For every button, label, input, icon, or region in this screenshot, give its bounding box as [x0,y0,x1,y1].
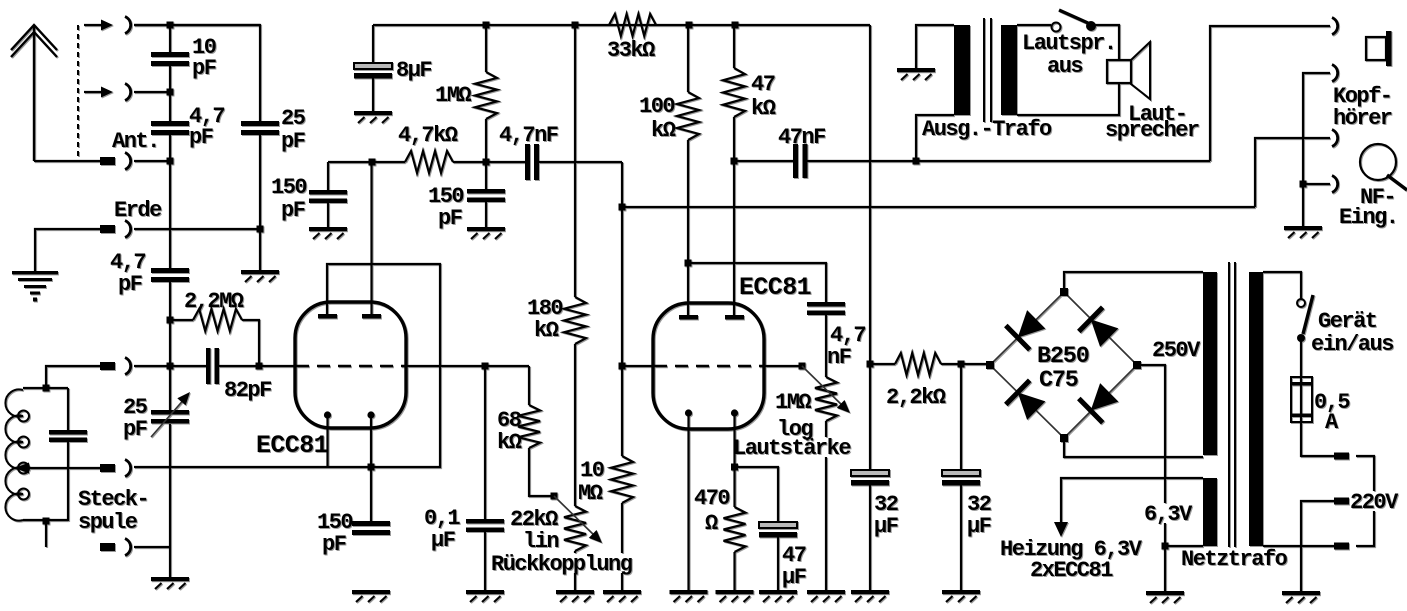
capacitor coil parallel [49,388,87,521]
ground 10M [603,590,641,602]
wire primary bottom [1263,545,1334,547]
switch Geraet ein/aus [1297,295,1313,342]
tube2 cathode A pin [685,409,692,590]
junction row2 [167,89,174,96]
potentiometer 1M log [815,315,837,590]
tube1 cathode B pin [367,411,374,521]
junction rail 100k [686,22,693,29]
ground 8uF [354,111,392,123]
ground 150pF anode [309,227,347,239]
svg-text:MΩ: MΩ [578,481,603,506]
diode D1 upper-left [1006,310,1046,350]
wire NF top [1255,138,1330,207]
plug Ant [100,157,115,165]
ground ausgtrafo [897,68,935,80]
tube1 cathode A pin [324,411,331,467]
junction gridB 0,1uF [482,363,489,370]
junction top rail x170 [167,22,174,29]
label 1M log [775,390,812,442]
wire rail B+ [373,24,870,26]
label 6,3V winding [1144,502,1193,527]
junction 2,2M left [167,317,174,324]
capacitor 10pF [151,52,189,66]
ground tube2 cathode A [670,590,708,602]
label 2,2M [184,289,244,314]
junction anode node [369,159,376,166]
label B250 C75 [1037,343,1089,394]
svg-text:Lautspr.: Lautspr. [1022,31,1116,56]
ausgtrafo secondary winding [1001,25,1017,115]
wire switch to speaker [1094,25,1119,60]
label 4,7pF lower [110,250,145,297]
wire main column x170 [169,25,171,577]
bridge vertex right [1133,361,1141,369]
wire tube1 gridB [406,365,529,367]
svg-text:6,3V: 6,3V [1144,502,1193,527]
ground 22k pot [556,590,594,602]
svg-text:2,2kΩ: 2,2kΩ [886,385,946,410]
svg-text:ECC81: ECC81 [256,431,328,460]
label Lautsprecher [1105,102,1199,143]
junction tube2 grid [619,363,626,370]
svg-text:8µF: 8µF [396,58,431,83]
ground main column [151,577,189,589]
ausgtrafo primary winding [954,25,970,115]
wire primary bottom [916,115,954,161]
wire bridge right to ground [1137,365,1165,591]
plug mains middle [1334,498,1349,505]
wire row2 [134,91,170,93]
resistor 2,2k [895,353,941,375]
resistor 47k [723,25,745,161]
svg-text:pF: pF [189,125,213,150]
svg-text:pF: pF [192,56,216,81]
capacitor 47nF [793,144,808,178]
wire antenna to Ant plug [34,160,100,162]
tube1 anode B bar+pin [362,162,381,319]
junction output trafo [913,158,920,165]
jack coil bottom [125,539,131,556]
bridge sides [990,292,1137,438]
wire 4,7nF to tube2 grid column [539,161,622,163]
label Erde [114,198,162,223]
netztrafo core [1229,262,1235,547]
tube2 grid dashed [654,365,764,367]
svg-text:1MΩ: 1MΩ [775,390,811,415]
plug coil bottom [100,543,115,551]
label 47k [751,72,776,121]
capacitor 8uF [354,25,392,111]
capacitor 150pF cathode [352,521,390,535]
label 250V [1152,338,1201,363]
junction heater return [1162,543,1169,550]
svg-text:Erde: Erde [114,198,162,223]
ground 32uF first [851,590,889,602]
tube2 anode A bar [679,315,698,320]
svg-text:100: 100 [639,94,674,119]
svg-text:Lautstärke: Lautstärke [733,436,851,461]
label 68k [497,408,522,455]
label 22k lin Rueckkopplung [510,507,558,554]
label 32uF second [967,492,991,539]
label ECC81 tube1 [256,431,328,460]
ground rectifier minus [1146,591,1184,603]
wire NF bottom jack [1303,183,1330,185]
ground 25pF column [241,270,279,282]
svg-text:pF: pF [281,198,305,223]
wire anodeA to 4,7nF2 [688,263,826,315]
svg-text:µF: µF [431,528,455,553]
tube2 cathode B pin [731,409,738,507]
svg-text:µF: µF [782,565,806,590]
svg-text:pF: pF [322,532,346,557]
wire 47nF to trafo [807,160,1210,162]
svg-text:Gerät: Gerät [1318,309,1377,334]
heater arrow [1054,522,1068,537]
ground 0,1uF [466,590,504,602]
svg-text:ECC81: ECC81 [739,273,811,302]
dashed antenna aux line [77,25,79,161]
svg-text:Netztrafo: Netztrafo [1181,547,1288,572]
wire cathodeB to 47uF [735,467,779,522]
wire heater supply [1061,478,1203,523]
triode U1 ECC81 envelope [295,302,406,428]
resistor 10M [611,456,633,590]
svg-text:pF: pF [118,272,142,297]
wire NF bus [622,206,1255,208]
label 8uF [396,58,431,83]
svg-text:sprecher: sprecher [1105,118,1199,143]
jack headphone bottom [1332,65,1338,82]
svg-text:33kΩ: 33kΩ [607,38,655,63]
plug mains top left [1334,453,1349,460]
jack Ant [125,153,131,170]
wire tube2 grid column [621,162,623,456]
headphone icon [1366,31,1392,66]
wiper arrow 22k pot [554,496,602,543]
jack Erde [125,221,131,238]
label 100k [639,94,676,143]
label 4,7pF upper [189,104,224,150]
netztrafo primary winding [1249,272,1263,546]
svg-text:kΩ: kΩ [651,118,676,143]
ausgtrafo core [984,18,991,122]
resistor 180k [564,25,586,506]
label 10M [578,458,604,506]
svg-text:Steck-: Steck- [78,487,148,512]
capacitor 4,7nF2 [807,302,845,315]
arrow connector row2 [84,87,113,98]
loudspeaker [1107,42,1150,99]
wire heater return [1165,545,1203,547]
capacitor 82pF [206,348,219,384]
plug coil tap [100,464,115,472]
junction NF ground [1300,181,1307,188]
capacitor 32uF second [942,364,980,590]
svg-text:C75: C75 [1039,367,1078,394]
wire 2,2M right [242,320,259,366]
triode U2 ECC81 envelope [653,303,764,429]
wire mains middle tap [1301,501,1334,591]
resistor 1M [475,25,497,162]
jack grid row [125,358,131,375]
resistor 33k [609,14,656,36]
label 150pF anode [271,175,306,223]
svg-text:82pF: 82pF [224,378,271,403]
svg-text:Rückkopplung: Rückkopplung [491,552,632,577]
resistor 2,2M [193,309,242,331]
junction wire2 [619,204,626,211]
junction cathode row [368,464,375,471]
wiper arrow 1M pot [802,366,850,413]
wire speaker return [1017,83,1119,115]
svg-text:4,7nF: 4,7nF [499,123,558,148]
svg-text:pF: pF [438,206,462,231]
junction tube2 gridB wiper [799,363,806,370]
wire mains right bracket [1356,456,1374,546]
label Geraet ein/aus [1311,309,1393,357]
label 4,7k [398,123,458,148]
label 4,7nF2 [827,323,865,370]
fuse 0,5A [1291,377,1312,422]
capacitor 4,7pF lower [151,268,189,282]
junction tube2 anodeA [685,260,692,267]
junction coil top [43,385,50,392]
potentiometer 22k lin [564,506,586,590]
svg-text:µF: µF [967,514,991,539]
tube1 anode A bar [318,314,337,319]
tube1 grid dashed [296,365,406,367]
label ECC81 tube2 [739,273,811,302]
svg-text:kΩ: kΩ [497,430,522,455]
svg-text:47: 47 [751,72,775,97]
wire coil bottom [23,520,68,547]
junction 68k wiper [551,493,558,500]
svg-text:pF: pF [281,129,305,154]
svg-text:kΩ: kΩ [751,96,776,121]
label Ant. [112,129,159,154]
svg-text:B250: B250 [1037,343,1089,370]
svg-text:nF: nF [827,345,851,370]
coil tap arrow [15,463,100,474]
svg-text:220V: 220V [1350,490,1399,515]
label 32uF first [874,492,898,539]
label trimmer 25pF [123,395,148,442]
wire anodeB pin [733,161,735,315]
plug Erde [100,225,115,233]
wire 2,2k to bridge [941,363,990,365]
wire B+ drop [869,25,871,364]
tube2 anode B bar [725,315,744,320]
label 470 [694,486,729,536]
resistor 4,7k [405,151,453,173]
diode D3 lower-left [1006,380,1046,420]
svg-text:2xECC81: 2xECC81 [1030,558,1113,583]
jack NF bottom [1332,176,1338,193]
antenna symbol [11,25,57,161]
svg-text:hörer: hörer [1333,106,1392,131]
ground 47uF [759,590,797,602]
ground 1M log pot [807,590,845,602]
wire 4,7k to 4,7nF [453,161,525,163]
svg-text:2,2MΩ: 2,2MΩ [184,289,244,314]
capacitor 150pF anode [309,162,347,227]
svg-text:Ω: Ω [705,511,718,536]
jack coil tap [125,460,131,477]
svg-text:Ausg.-Trafo: Ausg.-Trafo [922,117,1052,142]
label Heizung [1000,537,1143,583]
junction Erde 25pF column [257,226,264,233]
label 82pF [224,378,271,403]
label Netztrafo [1181,547,1288,572]
label 33k [607,38,655,63]
svg-text:470: 470 [694,486,729,511]
capacitor 4,7nF coupling [525,144,539,180]
wire B+ to 2,2k [870,363,895,365]
ground 150pF second [467,227,505,239]
label Steckspule [78,487,148,535]
junction grid row x170 [167,363,174,370]
wire 25pF column [134,25,260,270]
svg-text:µF: µF [874,514,898,539]
svg-text:kΩ: kΩ [534,318,559,343]
wire secondary top [1017,24,1051,26]
capacitor 25pF [241,121,279,135]
wire bridge bottom to trafo [1064,438,1203,457]
junction Ant row [167,158,174,165]
diode D2 upper-right [1079,307,1119,347]
label 150pF cathode [317,510,352,557]
wire NF ground [1302,184,1304,226]
wire 2,2M left [170,319,193,321]
svg-text:1MΩ: 1MΩ [435,83,471,108]
label 220V [1350,490,1399,515]
resistor 470 [724,507,746,590]
svg-text:25: 25 [281,106,306,131]
label 0,1uF [424,506,460,553]
capacitor 0,1uF [466,366,504,590]
bridge vertex top [1060,288,1068,296]
junction coil bottom [43,518,50,525]
resistor 100k [677,25,699,263]
wire tube2 gridB [764,365,802,367]
label NF-Eing. [1339,185,1398,230]
switch Lautspr aus [1052,10,1097,32]
label 1M [435,83,471,108]
junction rail 180k [572,22,579,29]
trimmer arrow [151,392,190,437]
label 25pF [281,106,306,154]
ground 32uF second [942,590,980,602]
capacitor 32uF first [851,364,889,590]
ground 470 [716,590,754,602]
wire trafo to headphone jack [1210,26,1330,161]
svg-text:Eing.: Eing. [1339,205,1398,230]
wire grid row left [134,365,207,367]
svg-text:47nF: 47nF [778,125,825,150]
ground mains [1282,591,1320,603]
wire 82pF to tube1 [219,365,296,367]
wire Ant row [134,160,170,162]
plug mains bottom [1334,543,1349,550]
label 10pF [192,35,216,81]
netztrafo 6,3V winding [1203,478,1217,546]
label Lautstaerke [733,436,851,461]
NF input icon [1360,144,1407,190]
jack NF top [1332,130,1338,147]
junction 2,2M to grid wire [256,363,263,370]
capacitor 4,7pF upper [151,121,189,135]
label 2,2k [886,385,946,410]
bridge vertex bottom [1060,434,1068,442]
svg-text:ein/aus: ein/aus [1311,332,1393,357]
label 47uF [782,543,806,590]
ground NF [1284,226,1322,238]
wire fuse to plug [1301,422,1334,456]
label 180k [527,296,562,343]
junction rail 47k [732,22,739,29]
wire cathode row tube1 [134,264,440,467]
wire primary top grounded [916,25,954,68]
junction 1M column [483,159,490,166]
svg-text:spule: spule [78,510,138,535]
wire Erde left + down [35,229,100,271]
junction rail 1M [483,22,490,29]
netztrafo 250V winding [1203,272,1217,455]
jack row2 [125,84,131,101]
svg-text:4,7kΩ: 4,7kΩ [398,123,458,148]
label Ausg.-Trafo [922,117,1052,142]
wire bridge top to trafo [1064,272,1203,292]
wire coil bottom row [134,546,170,548]
wire coil top [23,366,100,388]
wire switch to fuse [1300,338,1302,377]
plug grid row [100,362,115,370]
label Lautspr aus [1022,31,1116,79]
svg-text:10: 10 [580,458,604,483]
jack headphone top [1332,18,1338,35]
capacitor 150pF second [467,162,505,227]
bridge vertex left [986,361,994,369]
wire headphone bottom [1303,73,1330,184]
label 4,7nF [499,123,558,148]
resistor 68k [518,366,554,496]
arrow connector row1 [84,20,113,31]
capacitor 47uF [759,522,797,590]
diode D4 lower-right [1079,383,1119,423]
wire Erde row [134,228,260,230]
jack row1 [125,17,131,34]
wire row1 to top rail corner [134,24,260,26]
svg-text:150: 150 [271,175,306,200]
junction 47k anodeB [731,158,738,165]
junction tube2 cathode B [731,464,738,471]
wire anode node row [328,161,405,163]
ground 150pF cathode [352,590,390,602]
svg-text:250V: 250V [1152,338,1201,363]
trimmer capacitor 25pF [151,410,189,424]
label 0,5A [1314,390,1350,435]
inductor Steckspule coil [5,389,29,520]
label 150pF second [428,184,463,231]
earth ground [12,271,58,302]
label 47nF [778,125,825,150]
svg-text:pF: pF [123,417,147,442]
label Kopfhoerer [1333,84,1392,131]
wire 47k to 47nF [734,160,793,162]
wire primary top to switch [1263,272,1301,299]
junction rectifier plus [958,361,965,368]
